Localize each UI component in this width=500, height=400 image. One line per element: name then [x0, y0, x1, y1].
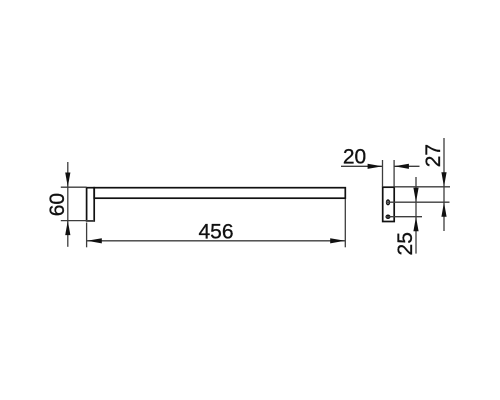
towel bar front view: horizontal rail: [94, 188, 345, 199]
svg-text:25: 25: [394, 232, 417, 255]
dimension 27: lower arrow (points up): [441, 202, 446, 217]
dimension 20: right extension line: [393, 160, 395, 187]
dimension 27: bottom extension line (from upper hole centre): [386, 201, 450, 203]
dimension 60: bottom extension line: [61, 220, 94, 222]
dimension 20: right dimension line segment: [394, 165, 419, 167]
dimension 456: dimension line: [87, 240, 345, 242]
dimension 27: top extension line (from plate top edge): [394, 186, 450, 188]
dimension 20: left dimension line segment: [341, 165, 382, 167]
svg-text:27: 27: [422, 144, 445, 167]
dimension 25: lower arrow (points up): [413, 217, 418, 232]
side view: upper screw hole: [387, 200, 390, 205]
dimension 60: lower arrow (points up): [65, 221, 70, 236]
side view: bracket plate: [383, 187, 395, 221]
dimension 456: right arrow (points right): [330, 238, 345, 243]
dimension 20: right arrow (points left): [394, 164, 409, 169]
dimension 456: left extension line: [86, 223, 88, 248]
dimension 27: upper arrow (points down): [441, 172, 446, 187]
dimension 25: dimension line: [415, 177, 417, 254]
svg-text:20: 20: [343, 145, 366, 168]
towel bar front view: wall bracket plate: [87, 188, 95, 221]
side view: lower screw hole: [386, 215, 390, 218]
svg-text:456: 456: [198, 220, 233, 243]
dimension 456: left arrow (points left): [87, 238, 102, 243]
dimension 20: left extension line: [382, 160, 384, 187]
svg-text:60: 60: [46, 193, 69, 216]
dimension 27: dimension line: [443, 138, 445, 231]
dimension 60: dimension line: [67, 162, 69, 247]
dimension 20: left arrow (points right): [368, 164, 383, 169]
dimension 60: top extension line: [61, 186, 87, 188]
dimension 25: value label: [394, 232, 417, 255]
dimension 27: value label: [422, 144, 445, 167]
dimension 456: right extension line: [344, 199, 346, 248]
dimension 60: value label: [46, 193, 69, 216]
dimension 60: upper arrow (points down): [65, 173, 70, 188]
dimension 25: upper arrow (points down): [413, 188, 418, 203]
dimension 25: bottom extension line (from lower hole centre): [386, 216, 422, 218]
